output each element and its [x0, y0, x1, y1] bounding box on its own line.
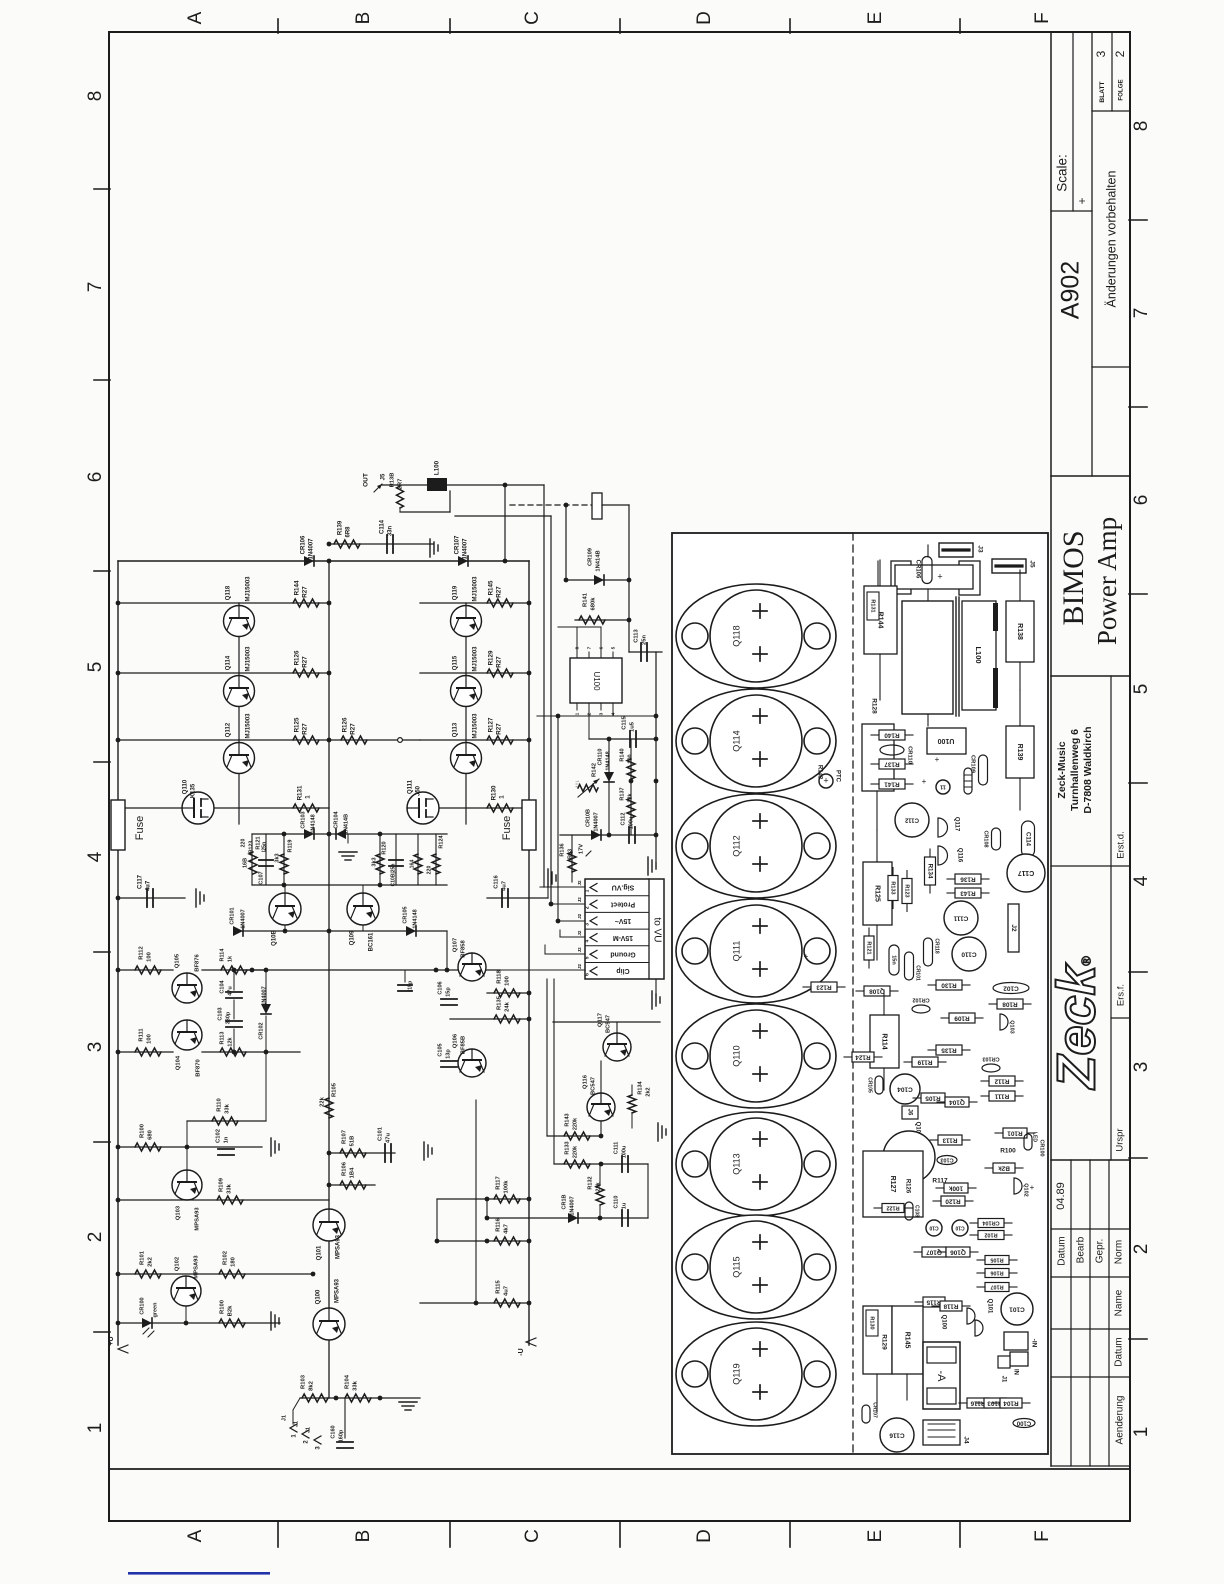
svg-text:11: 11 — [940, 784, 946, 790]
svg-text:R137: R137 — [619, 787, 625, 800]
svg-text:5: 5 — [584, 956, 590, 959]
svg-text:-A: -A — [935, 1371, 947, 1383]
svg-text:180: 180 — [231, 1257, 237, 1267]
svg-text:R27: R27 — [302, 586, 309, 598]
svg-text:1N414B: 1N414B — [596, 550, 602, 571]
svg-text:J6: J6 — [906, 1109, 912, 1116]
svg-text:3: 3 — [598, 712, 604, 715]
svg-text:R130: R130 — [491, 785, 498, 800]
svg-text:CR102: CR102 — [912, 997, 929, 1003]
svg-text:BF876: BF876 — [195, 954, 201, 972]
svg-text:Q103: Q103 — [176, 1205, 182, 1220]
svg-text:J5: J5 — [1028, 560, 1035, 568]
svg-text:+: + — [1075, 197, 1089, 204]
svg-text:6R8: 6R8 — [346, 526, 352, 538]
svg-text:22k: 22k — [320, 1096, 326, 1106]
svg-text:BLATT: BLATT — [1099, 81, 1106, 102]
svg-text:15V-M: 15V-M — [613, 934, 633, 941]
svg-text:Bearb: Bearb — [1076, 1236, 1087, 1263]
svg-text:R141: R141 — [884, 780, 900, 787]
svg-text:R134: R134 — [926, 864, 933, 879]
svg-text:R143: R143 — [960, 889, 976, 896]
svg-text:C104: C104 — [219, 979, 225, 993]
svg-text:R100: R100 — [220, 1300, 226, 1314]
svg-text:R114: R114 — [219, 948, 225, 962]
svg-text:7: 7 — [1131, 308, 1152, 319]
svg-text:CR100: CR100 — [139, 1297, 145, 1314]
svg-text:R145: R145 — [904, 1332, 911, 1349]
svg-text:3: 3 — [584, 923, 590, 926]
svg-text:↑↑↓: ↑↑↓ — [574, 780, 580, 789]
svg-text:J1: J1 — [293, 1421, 299, 1427]
svg-text:R145: R145 — [488, 580, 495, 595]
svg-text:CR106: CR106 — [301, 535, 307, 554]
svg-text:R133: R133 — [890, 881, 896, 894]
svg-text:2: 2 — [1131, 1244, 1152, 1255]
svg-text:C117: C117 — [1018, 869, 1034, 876]
svg-text:16B: 16B — [242, 858, 248, 868]
svg-text:1N4148: 1N4148 — [412, 909, 418, 928]
svg-text:C104: C104 — [897, 1085, 913, 1092]
svg-text:R131: R131 — [297, 785, 304, 800]
svg-text:47u: 47u — [227, 986, 233, 995]
svg-text:R124: R124 — [855, 1053, 871, 1060]
svg-text:A902: A902 — [1057, 261, 1085, 319]
svg-text:L100: L100 — [974, 646, 983, 663]
svg-text:MJ15003: MJ15003 — [246, 646, 252, 672]
svg-text:100: 100 — [627, 754, 633, 763]
svg-text:CR109: CR109 — [588, 547, 594, 566]
svg-text:Q113: Q113 — [731, 1153, 741, 1174]
svg-text:J2: J2 — [1010, 924, 1017, 932]
svg-text:100u: 100u — [621, 1146, 627, 1159]
svg-text:R13B: R13B — [390, 473, 396, 488]
svg-text:Q110: Q110 — [731, 1045, 741, 1066]
svg-text:MPSA93: MPSA93 — [194, 1255, 200, 1279]
svg-text:J5: J5 — [381, 473, 387, 480]
svg-text:R123: R123 — [248, 841, 254, 854]
svg-text:R130: R130 — [869, 1316, 875, 1329]
svg-text:B2k: B2k — [998, 1164, 1010, 1171]
svg-text:1N414B: 1N414B — [343, 814, 349, 834]
svg-text:R27: R27 — [302, 723, 309, 735]
svg-text:R123: R123 — [904, 884, 910, 897]
svg-text:CR101: CR101 — [229, 907, 235, 924]
svg-text:R27: R27 — [496, 586, 503, 598]
svg-text:CR104: CR104 — [333, 811, 339, 829]
svg-text:4: 4 — [584, 939, 590, 942]
svg-text:-U: -U — [518, 1348, 525, 1355]
svg-text:Q117: Q117 — [953, 817, 959, 832]
svg-text:1: 1 — [574, 712, 580, 715]
svg-text:R134: R134 — [637, 1080, 643, 1094]
svg-text:Q106: Q106 — [453, 1033, 459, 1048]
svg-text:2: 2 — [1113, 50, 1127, 57]
svg-text:C106: C106 — [437, 981, 443, 994]
svg-text:Q100: Q100 — [940, 1315, 946, 1330]
svg-text:2: 2 — [85, 1232, 106, 1243]
svg-text:C116: C116 — [494, 874, 500, 888]
svg-text:Fuse: Fuse — [501, 816, 513, 840]
svg-text:Name: Name — [1114, 1289, 1125, 1316]
svg-text:C105: C105 — [437, 1043, 443, 1056]
svg-text:Q118: Q118 — [226, 585, 232, 600]
svg-text:R136: R136 — [960, 875, 976, 882]
svg-text:R100: R100 — [1000, 1148, 1016, 1155]
svg-text:R115: R115 — [926, 1298, 941, 1305]
svg-text:A: A — [185, 11, 206, 24]
svg-text:4: 4 — [85, 851, 106, 862]
svg-text:Q109: Q109 — [350, 930, 356, 945]
svg-text:CR110: CR110 — [597, 749, 603, 766]
svg-text:Q112: Q112 — [731, 835, 741, 856]
svg-text:Datum: Datum — [1057, 1236, 1068, 1265]
svg-text:Änderungen vorbehalten: Änderungen vorbehalten — [1104, 170, 1118, 307]
svg-text:F: F — [1032, 1530, 1053, 1542]
svg-text:PTC: PTC — [834, 770, 840, 783]
svg-text:3k3: 3k3 — [371, 857, 377, 866]
svg-text:1n: 1n — [224, 1136, 230, 1143]
svg-text:100: 100 — [147, 952, 153, 962]
svg-text:R111: R111 — [994, 1092, 1009, 1099]
svg-text:C10: C10 — [955, 1225, 964, 1231]
svg-text:R102: R102 — [223, 1251, 229, 1265]
svg-text:220: 220 — [240, 839, 246, 848]
svg-text:Q101: Q101 — [986, 1299, 992, 1314]
svg-text:Q103: Q103 — [1009, 1020, 1015, 1033]
svg-text:CR106: CR106 — [914, 560, 920, 579]
svg-text:2k2: 2k2 — [148, 1257, 154, 1267]
svg-text:BC161: BC161 — [369, 932, 375, 951]
svg-text:J2: J2 — [577, 947, 582, 953]
svg-text:R115: R115 — [496, 1279, 502, 1293]
svg-text:®: ® — [1078, 956, 1093, 966]
svg-text:680: 680 — [148, 1130, 154, 1140]
svg-text:Q116: Q116 — [956, 848, 962, 863]
svg-text:OUT: OUT — [363, 473, 370, 487]
svg-text:CR108: CR108 — [983, 830, 989, 847]
svg-text:Zeck-Music: Zeck-Music — [1056, 741, 1068, 798]
svg-text:1N4007: 1N4007 — [593, 812, 599, 831]
svg-text:5: 5 — [610, 646, 616, 649]
svg-text:R104: R104 — [1003, 1399, 1019, 1406]
svg-text:R109: R109 — [219, 1177, 225, 1192]
svg-text:C116: C116 — [889, 1431, 905, 1438]
svg-text:J1: J1 — [1000, 1376, 1006, 1383]
svg-text:R123: R123 — [816, 983, 832, 990]
svg-text:R27: R27 — [350, 723, 357, 735]
svg-text:R129: R129 — [488, 650, 495, 665]
svg-text:22k: 22k — [627, 792, 633, 802]
svg-text:3: 3 — [1094, 50, 1108, 57]
svg-text:R124: R124 — [438, 834, 444, 848]
svg-text:Scale:: Scale: — [1055, 154, 1070, 192]
svg-text:15V~: 15V~ — [615, 917, 632, 924]
svg-text:R130: R130 — [941, 981, 957, 988]
svg-text:47u: 47u — [386, 1133, 392, 1143]
svg-text:1: 1 — [1131, 1427, 1152, 1438]
svg-text:BC547: BC547 — [606, 1015, 612, 1033]
svg-text:CR107: CR107 — [455, 535, 461, 554]
svg-text:33k: 33k — [227, 1183, 233, 1193]
svg-text:C: C — [522, 1529, 543, 1543]
svg-text:CR103: CR103 — [300, 811, 306, 828]
svg-text:R129: R129 — [880, 1334, 887, 1350]
svg-text:|25n: |25n — [261, 842, 267, 852]
svg-text:C160: C160 — [330, 1425, 336, 1438]
svg-text:Aenderung: Aenderung — [1115, 1396, 1126, 1445]
svg-text:CR110: CR110 — [906, 746, 912, 764]
svg-text:R121: R121 — [866, 941, 872, 954]
svg-text:|15p: |15p — [407, 981, 413, 991]
svg-text:BC547: BC547 — [591, 1077, 597, 1095]
svg-text:7: 7 — [85, 282, 106, 293]
svg-text:R144: R144 — [294, 580, 301, 595]
svg-text:CR107: CR107 — [872, 1402, 878, 1418]
svg-text:R126: R126 — [342, 717, 349, 732]
svg-text:3k3: 3k3 — [274, 853, 280, 862]
svg-text:R127: R127 — [889, 1176, 896, 1193]
svg-text:R120: R120 — [381, 841, 387, 854]
svg-text:R126: R126 — [294, 650, 301, 665]
svg-text:1N4007: 1N4007 — [309, 538, 315, 560]
svg-text:R27: R27 — [496, 656, 503, 668]
svg-text:1N4007: 1N4007 — [463, 538, 469, 560]
svg-text:6: 6 — [85, 472, 106, 483]
svg-text:C112: C112 — [620, 813, 626, 826]
svg-text:R135: R135 — [497, 995, 503, 1010]
svg-text:R109: R109 — [954, 1014, 970, 1021]
svg-text:17V: 17V — [579, 844, 585, 854]
svg-text:1N4007: 1N4007 — [569, 1196, 575, 1215]
svg-text:33k: 33k — [225, 1103, 231, 1113]
svg-text:Q116: Q116 — [583, 1074, 589, 1089]
svg-text:8k2: 8k2 — [309, 1381, 315, 1391]
svg-text:R100: R100 — [140, 1124, 146, 1138]
svg-text:MJ15003: MJ15003 — [473, 646, 479, 672]
svg-text:5: 5 — [85, 662, 106, 673]
svg-text:R107: R107 — [990, 1284, 1003, 1290]
svg-text:R139: R139 — [1016, 744, 1023, 761]
svg-text:Datum: Datum — [1114, 1337, 1125, 1366]
svg-text:R128: R128 — [870, 698, 877, 714]
svg-text:to VU: to VU — [651, 917, 662, 942]
svg-text:R116: R116 — [496, 1217, 502, 1231]
svg-text:6: 6 — [1131, 495, 1152, 506]
svg-text:25n: 25n — [642, 635, 648, 645]
svg-text:51B: 51B — [350, 1136, 356, 1147]
svg-text:CR118: CR118 — [934, 938, 940, 954]
svg-text:100: 100 — [147, 1034, 153, 1044]
svg-text:J3: J3 — [976, 545, 983, 553]
svg-text:R136: R136 — [559, 843, 565, 856]
svg-text:R126: R126 — [904, 1179, 910, 1194]
svg-text:IN: IN — [1012, 1369, 1018, 1375]
svg-text:Fuse: Fuse — [134, 816, 146, 840]
svg-text:C117: C117 — [138, 874, 144, 889]
svg-text:+U: +U — [108, 1336, 115, 1345]
svg-text:C115: C115 — [622, 715, 628, 729]
svg-text:R102: R102 — [984, 1232, 997, 1238]
svg-text:Q113: Q113 — [453, 722, 459, 737]
svg-text:MPSA93: MPSA93 — [335, 1278, 341, 1303]
svg-text:13p: 13p — [445, 1049, 451, 1059]
svg-text:C112: C112 — [904, 816, 919, 822]
svg-text:B2k: B2k — [228, 1305, 234, 1316]
svg-text:J1: J1 — [305, 1427, 311, 1433]
svg-text:7: 7 — [586, 646, 592, 649]
svg-text:FOLGE: FOLGE — [1118, 79, 1125, 100]
svg-text:J50: J50 — [416, 785, 422, 796]
svg-text:J2: J2 — [577, 930, 582, 936]
svg-text:R113: R113 — [219, 1032, 225, 1045]
svg-text:R27: R27 — [496, 723, 503, 735]
svg-text:Q114: Q114 — [731, 730, 741, 751]
svg-text:R111: R111 — [139, 1028, 145, 1042]
svg-text:Zeck: Zeck — [1046, 962, 1106, 1090]
svg-text:Q114: Q114 — [226, 655, 232, 670]
svg-text:R107: R107 — [342, 1130, 348, 1144]
svg-text:R118: R118 — [497, 969, 503, 983]
svg-text:R101: R101 — [1007, 1129, 1023, 1136]
svg-text:R120: R120 — [945, 1197, 961, 1204]
svg-text:E: E — [865, 1530, 886, 1543]
svg-text:MJ15003: MJ15003 — [246, 713, 252, 739]
svg-text:Q104: Q104 — [949, 1098, 965, 1105]
svg-text:160p: 160p — [338, 1429, 344, 1442]
svg-text:1N4007: 1N4007 — [261, 986, 267, 1005]
svg-text:MJ15003: MJ15003 — [246, 576, 252, 602]
svg-text:R119: R119 — [287, 840, 293, 853]
svg-text:+: + — [823, 775, 828, 785]
svg-text:J2: J2 — [577, 880, 582, 886]
svg-text:Q101: Q101 — [317, 1245, 323, 1260]
svg-text:330p: 330p — [225, 1011, 231, 1024]
svg-text:F: F — [1032, 12, 1053, 24]
svg-text:R142: R142 — [816, 765, 822, 780]
svg-text:CR103: CR103 — [982, 1056, 999, 1062]
svg-text:Q111: Q111 — [731, 941, 741, 962]
svg-text:R112: R112 — [994, 1077, 1009, 1084]
svg-text:Q115: Q115 — [453, 655, 459, 670]
svg-text:R112: R112 — [139, 946, 145, 960]
svg-text:+: + — [1030, 1183, 1035, 1192]
svg-text:4k7: 4k7 — [504, 1224, 510, 1234]
svg-text:1N4148: 1N4148 — [605, 751, 611, 770]
svg-text:C114: C114 — [380, 519, 386, 534]
svg-text:C102: C102 — [216, 1129, 222, 1143]
svg-text:1k: 1k — [227, 955, 233, 962]
svg-text:100k: 100k — [504, 1180, 510, 1194]
svg-text:R131: R131 — [870, 599, 876, 612]
svg-text:Q117: Q117 — [598, 1013, 604, 1027]
svg-text:24k: 24k — [505, 1001, 511, 1011]
svg-text:R140: R140 — [619, 748, 625, 761]
svg-text:4u7: 4u7 — [502, 881, 508, 891]
svg-text:D: D — [694, 1529, 715, 1543]
svg-text:4u7: 4u7 — [504, 1286, 510, 1296]
svg-text:Q110: Q110 — [183, 779, 189, 794]
svg-text:C10B|25n: C10B|25n — [390, 864, 396, 887]
svg-text:1u: 1u — [621, 1203, 627, 1209]
svg-text:CR101: CR101 — [915, 965, 921, 981]
svg-text:CR105: CR105 — [402, 906, 408, 923]
svg-text:C102: C102 — [1003, 984, 1019, 991]
svg-text:green: green — [152, 1302, 158, 1318]
svg-text:R140: R140 — [884, 731, 900, 738]
svg-text:8: 8 — [1131, 121, 1152, 132]
svg-text:BF85B: BF85B — [461, 1036, 467, 1054]
svg-text:CR105: CR105 — [867, 1077, 873, 1093]
svg-text:Q118: Q118 — [731, 625, 741, 646]
svg-text:R113: R113 — [942, 1136, 957, 1143]
svg-text:100u: 100u — [628, 817, 634, 830]
svg-text:R106: R106 — [990, 1270, 1003, 1276]
svg-text:MPSA93: MPSA93 — [195, 1207, 201, 1231]
svg-text:R103: R103 — [301, 1374, 307, 1389]
svg-text:Q104: Q104 — [176, 1055, 182, 1070]
svg-text:R105: R105 — [990, 1257, 1003, 1263]
svg-text:R108: R108 — [1002, 1000, 1018, 1007]
svg-text:C111: C111 — [953, 914, 968, 921]
svg-text:Gepr.: Gepr. — [1095, 1239, 1106, 1263]
svg-text:Protect: Protect — [610, 900, 635, 907]
svg-text:D: D — [694, 11, 715, 25]
svg-text:15p: 15p — [445, 987, 451, 997]
svg-text:Q108: Q108 — [869, 987, 885, 994]
svg-text:R127: R127 — [488, 717, 495, 732]
svg-text:J1: J1 — [281, 1415, 287, 1421]
svg-text:R122: R122 — [886, 1205, 899, 1211]
svg-text:33n: 33n — [388, 525, 394, 536]
svg-text:100: 100 — [505, 976, 511, 986]
svg-text:B: B — [353, 12, 374, 25]
svg-text:R33: R33 — [567, 849, 573, 859]
svg-text:Q115: Q115 — [731, 1256, 741, 1277]
svg-text:6: 6 — [584, 973, 590, 976]
svg-text:Q102: Q102 — [175, 1257, 181, 1271]
svg-text:C110: C110 — [613, 1196, 619, 1209]
svg-text:Q10B: Q10B — [272, 930, 278, 946]
svg-text:1: 1 — [85, 1423, 106, 1434]
svg-text:K135: K135 — [191, 783, 197, 798]
svg-text:L100: L100 — [434, 460, 441, 475]
svg-text:E: E — [865, 12, 886, 25]
svg-text:Q107: Q107 — [453, 938, 459, 952]
svg-text:MJ15003: MJ15003 — [473, 576, 479, 602]
svg-text:R106: R106 — [342, 1161, 348, 1176]
svg-text:CR1B: CR1B — [561, 1194, 567, 1209]
svg-text:R117: R117 — [496, 1176, 502, 1190]
svg-text:C103: C103 — [217, 1007, 223, 1020]
svg-text:-IN: -IN — [1030, 1339, 1037, 1348]
svg-text:+: + — [804, 952, 809, 961]
svg-text:R133: R133 — [564, 1141, 570, 1154]
svg-text:R119: R119 — [917, 1058, 932, 1065]
svg-text:12k: 12k — [227, 1036, 233, 1046]
svg-text:C107: C107 — [258, 871, 264, 884]
svg-text:Q100: Q100 — [316, 1289, 322, 1304]
svg-text:C110: C110 — [961, 950, 977, 957]
svg-text:R101: R101 — [140, 1250, 146, 1265]
svg-text:1u5: 1u5 — [630, 721, 636, 732]
svg-text:B: B — [353, 1530, 374, 1543]
svg-text:Q119: Q119 — [731, 1363, 741, 1384]
svg-text:R141: R141 — [583, 592, 589, 607]
svg-text:CR100: CR100 — [1039, 1139, 1045, 1156]
svg-text:220k: 220k — [572, 1117, 578, 1130]
svg-text:R105: R105 — [332, 1082, 338, 1097]
